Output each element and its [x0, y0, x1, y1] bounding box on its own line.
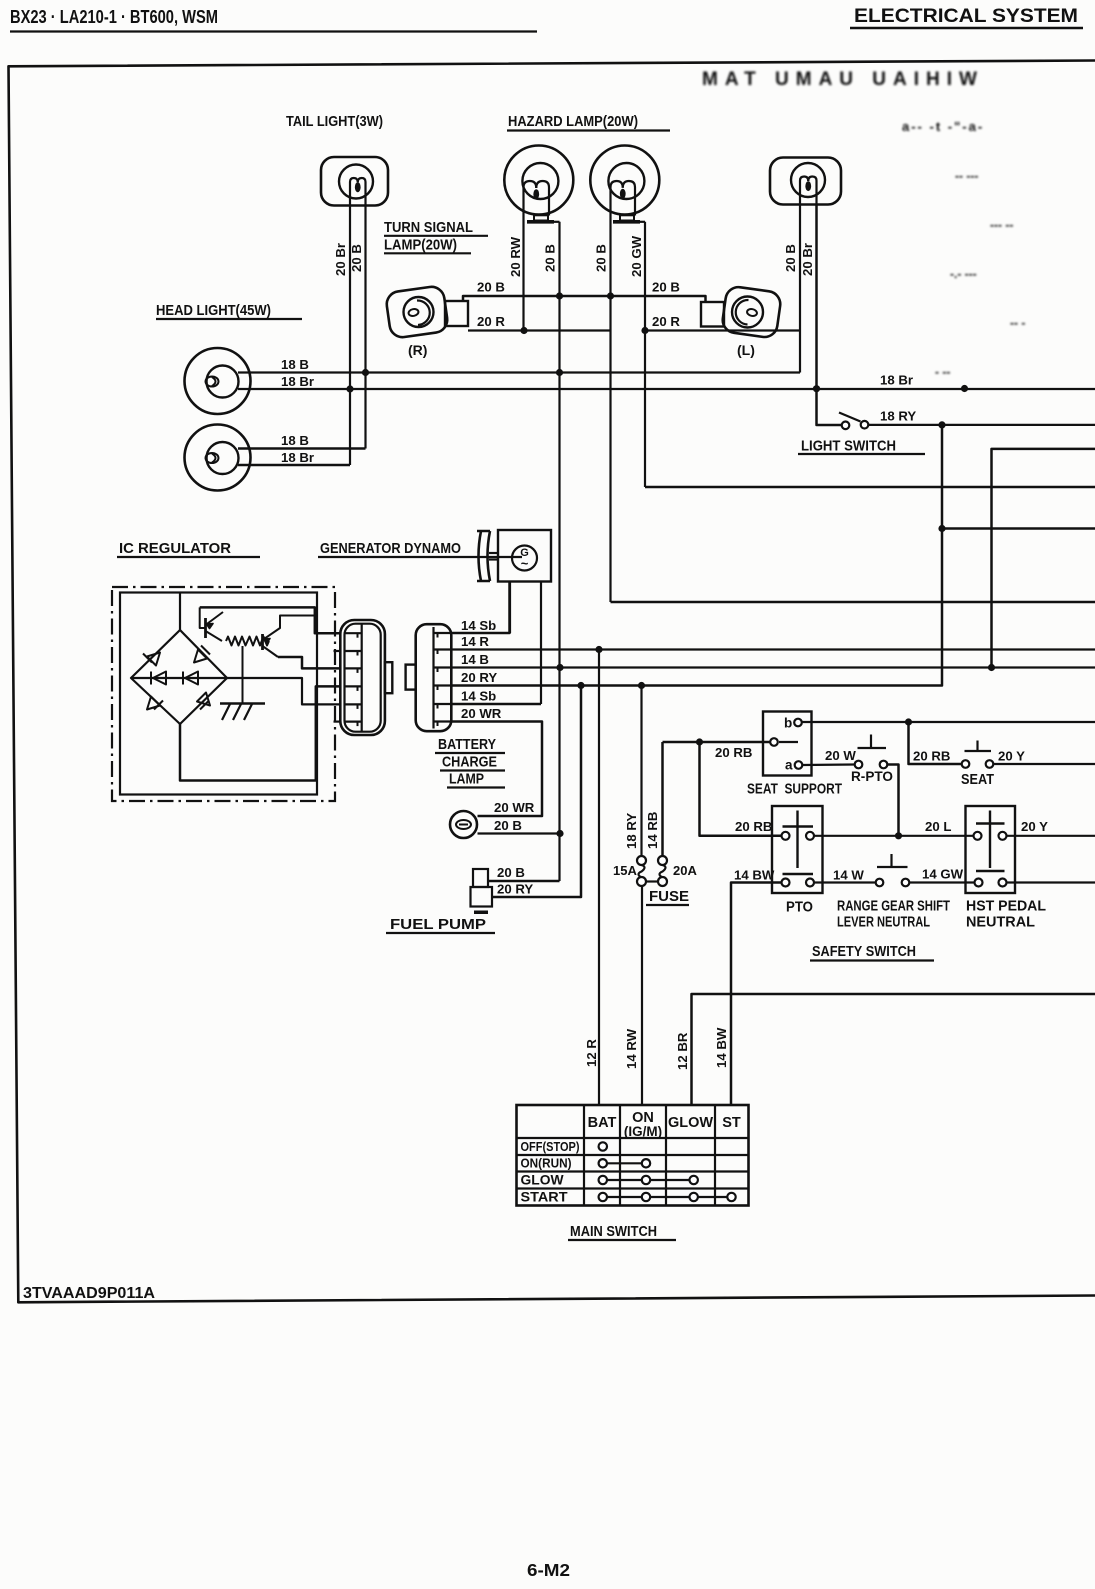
rectifier diamond — [131, 630, 227, 724]
svg-text:20 W: 20 W — [825, 748, 856, 763]
hazard lamp 2 — [590, 146, 659, 215]
svg-text:20A: 20A — [673, 863, 697, 878]
head light 2 — [185, 425, 251, 491]
safety switch underline — [810, 959, 934, 961]
svg-text:- --: - -- — [935, 365, 950, 379]
svg-text:R-PTO: R-PTO — [851, 768, 893, 784]
regulator path pin5 — [227, 678, 340, 704]
page frame border — [9, 61, 1095, 1303]
wire 20Br tail2 down — [817, 204, 842, 425]
connector harness pins — [434, 632, 452, 634]
r-pto bridge — [870, 735, 872, 749]
svg-text:18 Br: 18 Br — [281, 450, 314, 465]
wire 20B tail2 down — [799, 204, 801, 373]
connector harness bump — [406, 665, 416, 690]
svg-text:FUEL PUMP: FUEL PUMP — [390, 916, 486, 933]
svg-text:MAT UMAU UAIHIW: MAT UMAU UAIHIW — [702, 69, 984, 90]
wire 14B — [451, 666, 1095, 668]
svg-text:20 GW: 20 GW — [629, 235, 644, 277]
header rule right — [850, 27, 1083, 30]
svg-text:HAZARD LAMP(20W): HAZARD LAMP(20W) — [508, 113, 638, 130]
svg-text:~: ~ — [521, 556, 529, 571]
junction 20GW 20R — [641, 327, 648, 334]
svg-text:NEUTRAL: NEUTRAL — [966, 915, 1035, 931]
junction 20B chargelamp — [556, 830, 563, 837]
diode D1 mid-left — [153, 672, 166, 685]
svg-text:GLOW: GLOW — [668, 1115, 713, 1131]
turn signal lamp L body — [721, 285, 782, 338]
junction 18RY drop — [938, 421, 945, 428]
svg-text:14 Sb: 14 Sb — [461, 689, 496, 704]
svg-text:20 L: 20 L — [925, 819, 951, 834]
wire b line — [802, 721, 1095, 723]
svg-text:14 B: 14 B — [461, 652, 489, 667]
wire 20W a to R-PTO — [802, 763, 854, 766]
wire 18B headlight2 — [238, 447, 366, 450]
range contact right — [902, 879, 910, 887]
connector regulator bump — [385, 662, 392, 693]
seat support box — [763, 712, 812, 776]
svg-text:CHARGE: CHARGE — [442, 754, 497, 771]
connector regulator center line — [361, 624, 363, 732]
svg-text:GLOW: GLOW — [521, 1172, 565, 1188]
diode D3 upper-left — [147, 653, 160, 666]
wire 18Br headlight1 long — [238, 388, 1095, 390]
svg-text:18 RY: 18 RY — [624, 813, 639, 849]
regulator ground — [220, 702, 265, 704]
ic regulator underline — [117, 556, 260, 558]
svg-text:20 RY: 20 RY — [461, 670, 497, 685]
range contact left — [876, 879, 884, 887]
svg-text:20 B: 20 B — [349, 244, 364, 272]
seat support common contact — [770, 738, 778, 746]
junction b line seat — [905, 718, 912, 725]
regulator z path pin1 — [278, 657, 340, 668]
svg-text:20 RB: 20 RB — [715, 745, 752, 760]
svg-text:BAT: BAT — [588, 1115, 617, 1131]
svg-text:20 WR: 20 WR — [494, 800, 535, 815]
svg-text:20 RB: 20 RB — [913, 749, 950, 764]
wire seat feed — [909, 722, 962, 764]
seat bridge — [976, 741, 978, 752]
svg-text:14 R: 14 R — [461, 634, 489, 649]
svg-text:12 R: 12 R — [584, 1039, 599, 1067]
connector regulator inner — [345, 624, 381, 732]
wire 18RY fuse feed — [640, 686, 642, 857]
seat support contact b — [794, 719, 802, 727]
wire 20Y hst out — [1006, 835, 1095, 837]
connector harness body — [416, 624, 452, 731]
connector regulator pins — [345, 632, 362, 634]
svg-text:14 Sb: 14 Sb — [461, 618, 496, 633]
junction 20RY fuse branch — [638, 682, 645, 689]
diode D6 lower-right — [197, 693, 210, 706]
svg-text:HEAD LIGHT(45W): HEAD LIGHT(45W) — [156, 302, 271, 319]
r-pto contact right — [880, 761, 888, 769]
regulator ground stem — [242, 646, 244, 704]
pto contact bl — [782, 879, 790, 887]
pto contact ml — [782, 832, 790, 840]
svg-text:ON(RUN): ON(RUN) — [521, 1156, 572, 1171]
svg-text:-.- ---: -.- --- — [950, 267, 977, 281]
ghost bleedthrough text row1 — [702, 69, 1025, 379]
svg-text:20 B: 20 B — [497, 865, 525, 880]
wire 14Sb upper — [451, 582, 509, 634]
regulator pin stubs — [334, 650, 341, 652]
svg-text:(R): (R) — [408, 342, 427, 358]
svg-text:20 RY: 20 RY — [497, 882, 533, 897]
svg-text:b: b — [784, 716, 792, 731]
fuse element right — [658, 856, 667, 865]
junction 20RY fuelpump branch — [577, 682, 584, 689]
svg-text:20 B: 20 B — [783, 244, 798, 272]
row start contacts — [603, 1196, 732, 1198]
wire 14W — [814, 881, 876, 883]
hst contact br — [999, 879, 1007, 887]
wire 20B hazard2 down — [609, 216, 611, 603]
svg-text:20 B: 20 B — [477, 280, 505, 295]
pto box — [772, 806, 823, 893]
seat support contact a — [795, 761, 803, 769]
wire 18RY vertical to 20RY — [451, 425, 942, 686]
turn signal lamp R body — [385, 285, 449, 339]
svg-text:RANGE GEAR SHIFT: RANGE GEAR SHIFT — [837, 899, 950, 915]
fuse bottom bridge — [646, 880, 658, 882]
wire 20L — [814, 835, 974, 837]
wire 14RW main feed — [641, 886, 643, 1105]
svg-text:20 WR: 20 WR — [461, 706, 502, 721]
contact off-bat — [599, 1142, 607, 1150]
svg-text:GENERATOR DYNAMO: GENERATOR DYNAMO — [320, 540, 461, 557]
wire 20RB top — [663, 741, 771, 744]
wire 20B charge lamp — [478, 832, 561, 834]
battery charge lamp bulb — [450, 811, 477, 838]
wire generator lead2 — [540, 582, 542, 705]
generator label underline — [318, 556, 522, 558]
junction 18Br right — [961, 385, 968, 392]
wire 20R left segment — [468, 329, 611, 331]
svg-text:20 Br: 20 Br — [800, 243, 815, 276]
wire generator lead1 — [509, 582, 511, 634]
pto contact br — [806, 879, 814, 887]
wire 14RB fuse feed — [661, 742, 664, 856]
regulator inner top rail — [200, 607, 341, 633]
svg-text:BX23 · LA210-1 · BT600, WSM: BX23 · LA210-1 · BT600, WSM — [10, 6, 218, 27]
wire 18RY from light switch — [868, 424, 1095, 426]
wire 18Br headlight2 — [238, 464, 350, 467]
svg-text:SEAT: SEAT — [961, 771, 994, 788]
svg-text:MAIN SWITCH: MAIN SWITCH — [570, 1223, 657, 1240]
wire 20Br tail1 down — [349, 205, 351, 465]
connector regulator outer — [340, 620, 385, 735]
light switch contact b — [861, 421, 869, 429]
ic regulator solid box — [120, 593, 317, 795]
head light label underline — [156, 318, 302, 320]
hazard lamp label underline — [507, 129, 670, 131]
fuel pump body — [473, 869, 488, 887]
fuse underline — [646, 904, 689, 906]
junction 18Br tail2 — [813, 385, 820, 392]
wire 14BW — [731, 883, 782, 1106]
resistor R1 R2 zigzag — [226, 637, 269, 646]
turn signal lamp R bulb — [404, 297, 434, 327]
regulator top feed — [179, 593, 181, 631]
wire 20RY fuel pump — [492, 686, 581, 898]
svg-text:TURN SIGNAL: TURN SIGNAL — [384, 219, 473, 236]
svg-text:LAMP(20W): LAMP(20W) — [384, 237, 457, 254]
wire 20GW to right edge y487 — [645, 486, 1095, 489]
wire 20RW hazard1 — [522, 216, 524, 331]
seat contact left — [962, 760, 970, 768]
svg-text:SAFETY SWITCH: SAFETY SWITCH — [812, 943, 916, 960]
junction 20R 20RW — [520, 327, 527, 334]
svg-text:a: a — [785, 758, 793, 773]
svg-text:FUSE: FUSE — [649, 888, 689, 905]
seat support lever — [779, 741, 798, 743]
ic regulator dashed box — [112, 587, 335, 801]
wire 20B tail1 down — [364, 205, 366, 449]
wire 20GW hazard2 — [644, 222, 646, 487]
svg-text:3TVAAAD9P011A: 3TVAAAD9P011A — [23, 1285, 155, 1302]
connector harness center line — [432, 627, 434, 729]
r-pto contact left — [855, 761, 863, 769]
wire 20RB drop to PTO — [700, 742, 782, 836]
svg-text:18 Br: 18 Br — [281, 374, 314, 389]
wire from right edge y449 — [992, 449, 1095, 668]
junction 20L rpto — [895, 832, 902, 839]
svg-text:LAMP: LAMP — [449, 771, 484, 788]
svg-text:14 RW: 14 RW — [624, 1028, 639, 1069]
junction 20B bus hazard2 — [607, 292, 614, 299]
svg-text:SEAT SUPPORT: SEAT SUPPORT — [747, 781, 842, 798]
svg-text:(IG/M): (IG/M) — [624, 1124, 662, 1139]
wire 20B hazard1 ground long — [558, 222, 560, 881]
wire seat output — [993, 763, 1095, 765]
svg-text:14 GW: 14 GW — [922, 867, 964, 882]
svg-text:a-- -t -"-a-: a-- -t -"-a- — [902, 119, 984, 134]
svg-text:HST PEDAL: HST PEDAL — [966, 899, 1046, 915]
fuse element left — [637, 856, 646, 865]
tail light 1 body — [321, 157, 388, 206]
wire 20R right segment — [645, 329, 800, 331]
svg-text:20 B: 20 B — [543, 244, 558, 272]
junction y528 branch — [938, 525, 945, 532]
svg-text:PTO: PTO — [786, 899, 813, 916]
wire 18B headlight1 — [238, 371, 800, 373]
junction tail1 18B — [362, 369, 369, 376]
main switch table — [517, 1105, 749, 1206]
rectifier mid line — [131, 677, 227, 679]
svg-text:BATTERY: BATTERY — [438, 736, 496, 753]
junction tail1 18Br — [346, 385, 353, 392]
light switch contact a — [842, 422, 850, 430]
junction 20B 14B — [556, 664, 563, 671]
wire 12R main feed — [598, 650, 600, 1106]
header rule left — [10, 30, 537, 32]
svg-text:LIGHT SWITCH: LIGHT SWITCH — [801, 438, 896, 455]
svg-text:14 RB: 14 RB — [645, 812, 660, 849]
wire 20WR — [451, 722, 542, 817]
wire r-pto output — [887, 765, 898, 836]
main switch underline — [568, 1239, 676, 1241]
hazard lamp 1 — [504, 146, 573, 215]
svg-text:20 B: 20 B — [652, 280, 680, 295]
diode D5 lower-left — [147, 697, 160, 710]
wire 20B fuel pump — [488, 880, 560, 883]
transistor Q1 — [204, 618, 207, 638]
junction 20RB — [696, 738, 703, 745]
svg-text:20 B: 20 B — [494, 818, 522, 833]
svg-text:20 Y: 20 Y — [998, 749, 1025, 764]
wire 14R — [451, 648, 1095, 650]
wire y528 to right edge — [942, 527, 1095, 530]
svg-text:LEVER NEUTRAL: LEVER NEUTRAL — [837, 915, 930, 931]
svg-text:12 BR: 12 BR — [675, 1032, 690, 1070]
generator shaft — [489, 552, 498, 554]
svg-text:15A: 15A — [613, 863, 637, 878]
svg-text:18 B: 18 B — [281, 357, 309, 372]
hst contact mr — [999, 832, 1007, 840]
svg-text:-- -: -- - — [1010, 316, 1025, 330]
fuel pump underline — [386, 932, 495, 934]
svg-text:6-M2: 6-M2 — [527, 1560, 570, 1580]
svg-text:-- ---: -- --- — [955, 169, 978, 183]
turn signal lamp R connector — [445, 301, 468, 326]
seat contact right — [986, 760, 994, 768]
hst contact bl — [975, 879, 983, 887]
light switch underline — [798, 453, 925, 455]
wire 14Sb lower — [451, 703, 541, 706]
hst box — [966, 806, 1016, 893]
svg-text:14 BW: 14 BW — [714, 1027, 729, 1068]
svg-text:ELECTRICAL SYSTEM: ELECTRICAL SYSTEM — [854, 5, 1078, 27]
junction 18B hazard ground — [556, 369, 563, 376]
svg-text:(L): (L) — [737, 342, 755, 358]
svg-text:14 W: 14 W — [833, 868, 864, 883]
junction 20B bus hazard1 — [556, 292, 563, 299]
turn signal lamp L connector — [701, 302, 724, 327]
svg-text:20 R: 20 R — [652, 314, 680, 329]
tail light 2 bulb — [791, 163, 825, 197]
pto plunger — [796, 811, 798, 869]
diode D4 upper-right — [194, 650, 207, 663]
wire 14GW hst out — [1006, 881, 1095, 883]
svg-text:--- --: --- -- — [990, 218, 1013, 232]
svg-text:18 B: 18 B — [281, 433, 309, 448]
generator G symbol — [512, 546, 537, 571]
hst plunger — [989, 811, 991, 869]
wire 14GW — [909, 881, 974, 883]
wire 12BR main feed — [692, 994, 1095, 1105]
svg-text:18 RY: 18 RY — [880, 409, 916, 424]
transistor Q2 — [261, 634, 264, 650]
svg-text:18 Br: 18 Br — [880, 373, 913, 388]
light switch lever — [839, 413, 861, 422]
svg-text:14 BW: 14 BW — [734, 868, 775, 883]
range bridge — [890, 854, 892, 867]
svg-text:20 RW: 20 RW — [508, 236, 523, 277]
tail light 1 bulb — [339, 165, 373, 199]
tail light 2 body — [770, 158, 841, 205]
svg-text:20 B: 20 B — [594, 244, 609, 272]
regulator bottom path — [180, 686, 340, 780]
generator pulley — [479, 531, 482, 581]
wire 20B bus from R lamp — [463, 296, 706, 302]
svg-text:OFF(STOP): OFF(STOP) — [521, 1139, 580, 1154]
svg-text:START: START — [521, 1189, 568, 1205]
row glow contacts — [603, 1179, 694, 1181]
hst contact ml — [974, 832, 982, 840]
junction 14R mainswitch — [595, 646, 602, 653]
svg-text:20 Y: 20 Y — [1021, 819, 1048, 834]
hazard lamp 2 base — [611, 181, 623, 216]
regulator base rail — [200, 607, 206, 628]
generator box — [498, 530, 551, 582]
svg-text:20 Br: 20 Br — [333, 243, 348, 276]
svg-text:ST: ST — [722, 1115, 741, 1131]
diode D2 mid-right — [185, 672, 198, 685]
row on contacts — [603, 1162, 646, 1164]
wire B line to right edge — [611, 601, 1095, 604]
svg-text:20 RB: 20 RB — [735, 819, 772, 834]
pto contact mr — [806, 832, 814, 840]
turn signal lamp L bulb — [732, 297, 763, 328]
head light 1 — [185, 348, 251, 414]
svg-text:20 R: 20 R — [477, 314, 505, 329]
svg-text:TAIL LIGHT(3W): TAIL LIGHT(3W) — [286, 113, 383, 130]
hazard lamp 1 base — [524, 181, 537, 216]
svg-text:IC REGULATOR: IC REGULATOR — [119, 540, 231, 557]
junction y449-line 14B — [988, 664, 995, 671]
